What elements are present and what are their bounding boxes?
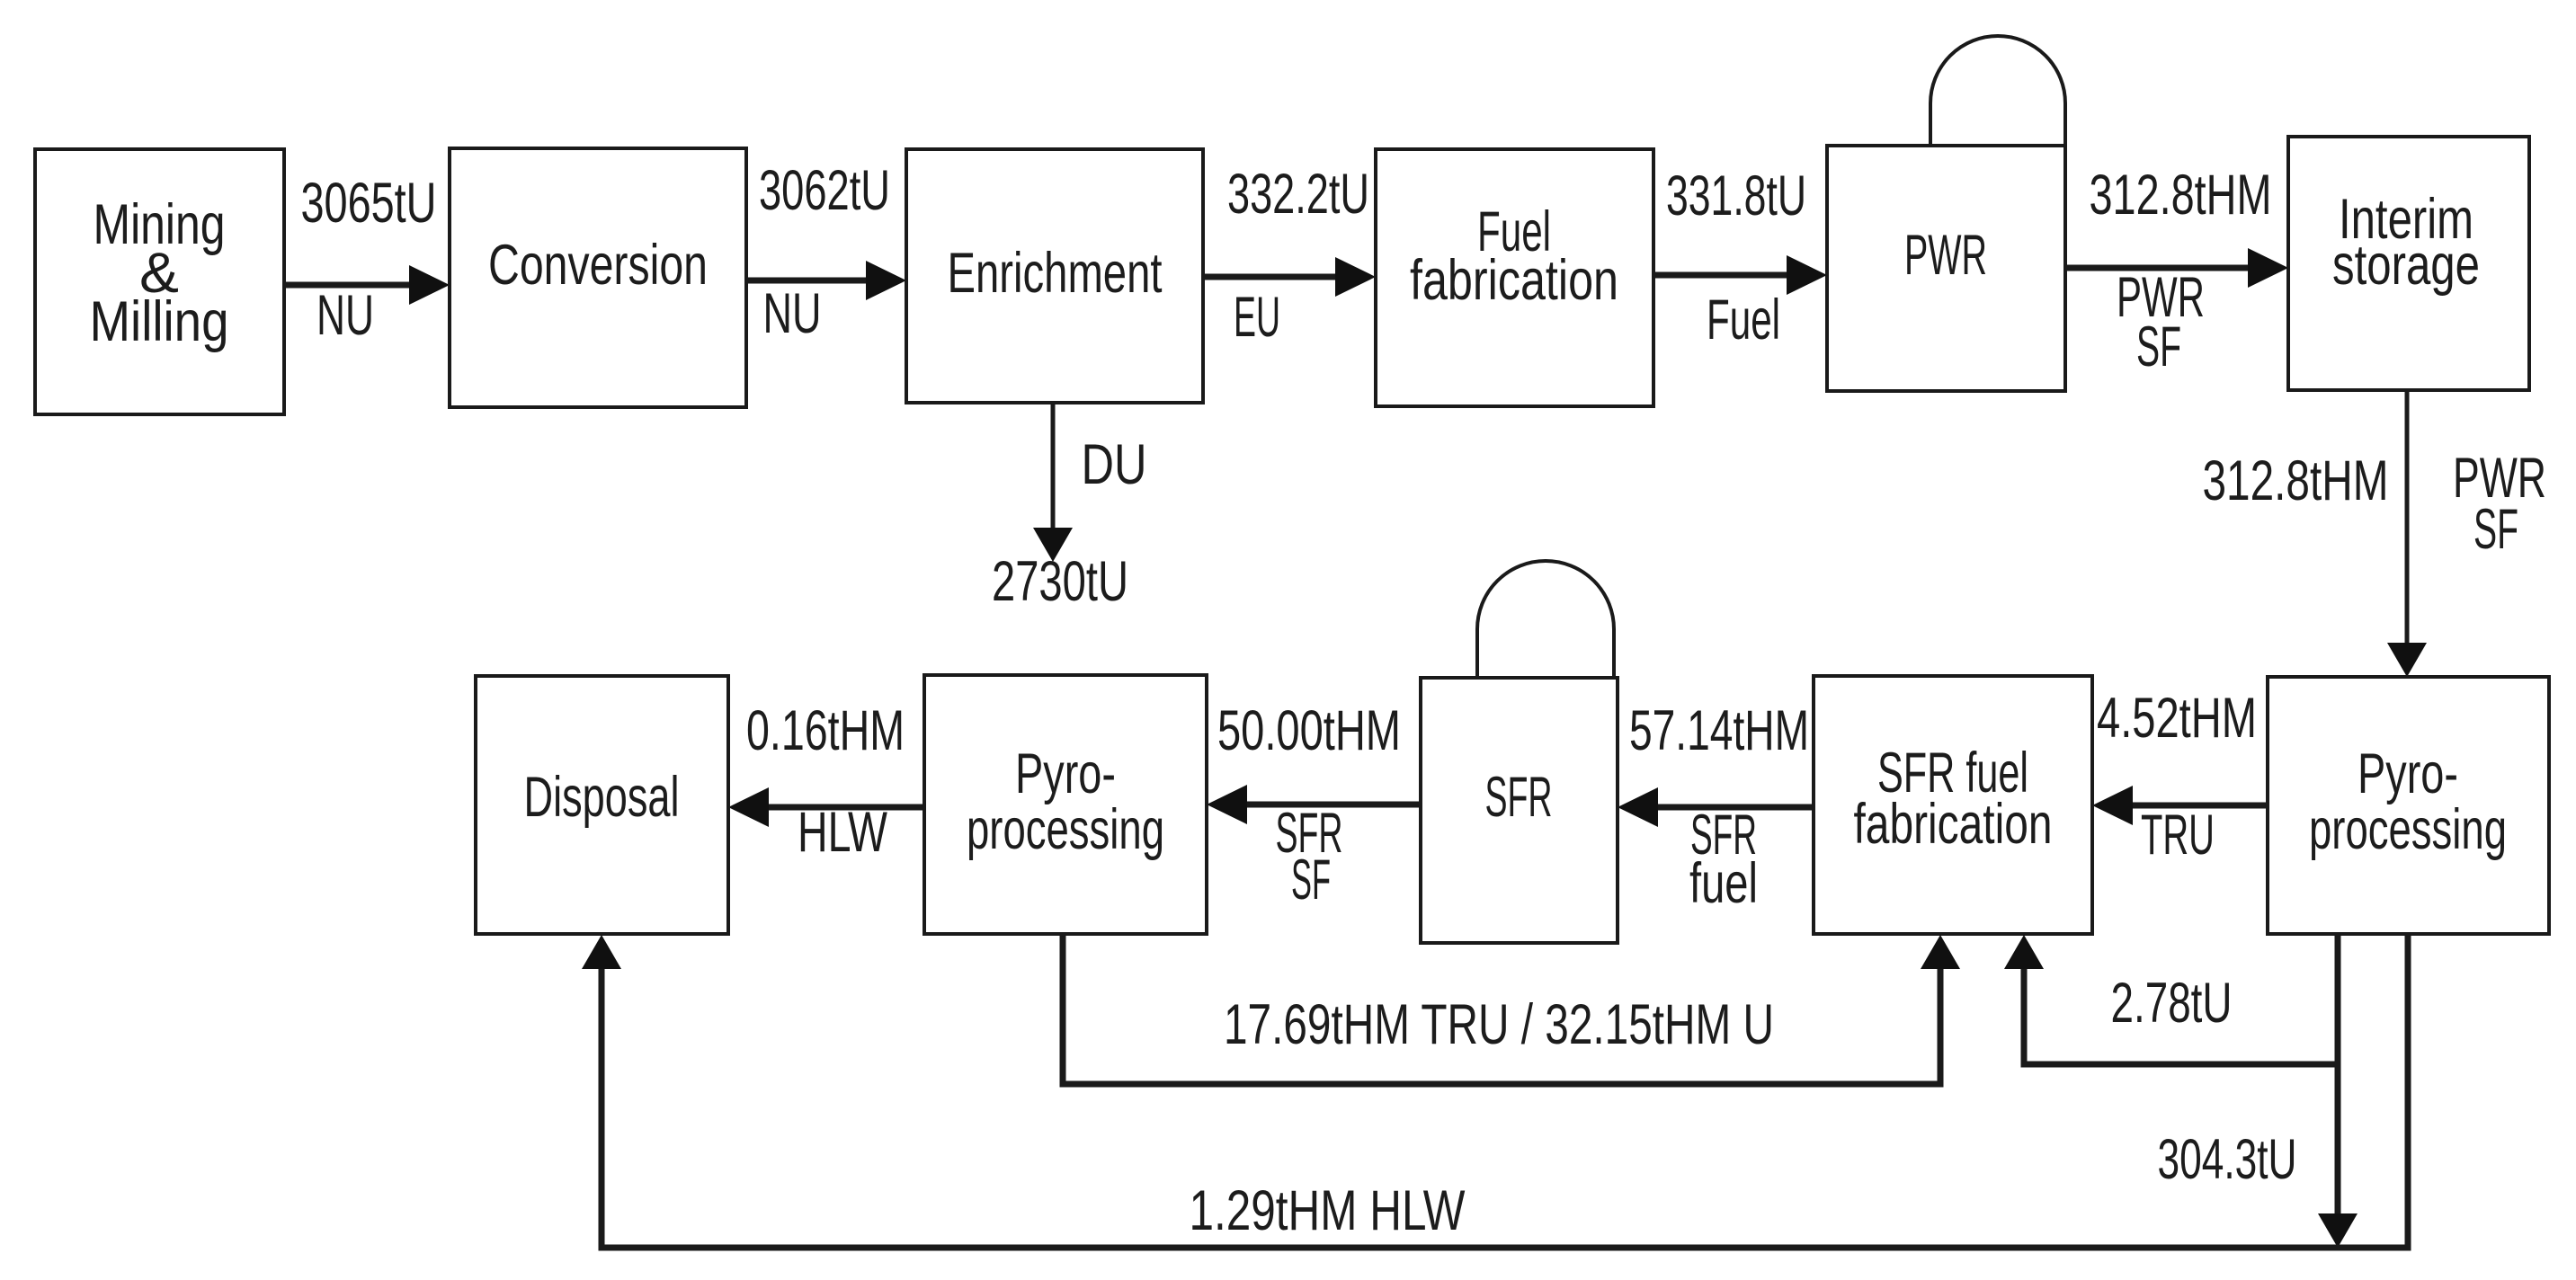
svg-text:Pyro-: Pyro- — [1015, 742, 1116, 805]
box Fuel fabrication — [1376, 149, 1653, 406]
box Conversion — [450, 148, 746, 407]
svg-text:0.16tHM: 0.16tHM — [746, 699, 905, 762]
svg-text:HLW: HLW — [798, 801, 887, 864]
svg-text:SF: SF — [2136, 316, 2181, 378]
svg-text:Milling: Milling — [90, 290, 229, 353]
svg-text:fabrication: fabrication — [1854, 793, 2053, 856]
svg-text:4.52tHM: 4.52tHM — [2097, 687, 2257, 750]
svg-text:fabrication: fabrication — [1410, 249, 1618, 312]
box PWR — [1827, 146, 2065, 391]
wire arrow Enrichment to Fuel fabrication — [1203, 257, 1376, 297]
wire recycle path Pyro right to SFR fuel fabrication (2.78tU) — [2004, 934, 2338, 1064]
box Enrichment — [906, 149, 1203, 403]
svg-text:NU: NU — [763, 282, 822, 345]
PWR reactor dome — [1930, 36, 2065, 146]
wire recycle path Pyro left to SFR fuel fabrication (TRU/U) — [1063, 934, 1960, 1084]
SFR reactor dome — [1477, 561, 1614, 678]
svg-text:Pyro-: Pyro- — [2358, 742, 2458, 805]
wire arrow SFR to Pyro-processing left — [1207, 785, 1421, 824]
wire arrow Conversion to Enrichment — [746, 261, 906, 300]
svg-text:SF: SF — [2473, 498, 2518, 561]
svg-text:2730tU: 2730tU — [992, 550, 1128, 613]
wire DU down from Enrichment — [1033, 403, 1073, 562]
box Pyro-processing right — [2268, 677, 2549, 934]
svg-text:TRU: TRU — [2141, 804, 2215, 867]
svg-text:Conversion: Conversion — [488, 234, 708, 297]
svg-text:NU: NU — [316, 284, 374, 347]
svg-text:processing: processing — [2309, 798, 2507, 861]
svg-text:332.2tU: 332.2tU — [1227, 163, 1369, 226]
svg-text:Disposal: Disposal — [524, 766, 680, 829]
svg-text:304.3tU: 304.3tU — [2158, 1128, 2297, 1191]
wire Interim storage down to Pyro-processing right — [2387, 390, 2427, 677]
svg-text:SFR: SFR — [1485, 766, 1553, 829]
svg-text:storage: storage — [2332, 234, 2480, 297]
wire 304.3tU down arrow from 2.78tU junction to bottom line — [2318, 1064, 2358, 1248]
svg-text:processing: processing — [967, 798, 1164, 861]
svg-text:Enrichment: Enrichment — [948, 242, 1163, 305]
svg-text:312.8tHM: 312.8tHM — [2090, 164, 2272, 227]
box Pyro-processing left — [924, 675, 1207, 934]
box Interim storage — [2288, 137, 2529, 390]
svg-text:1.29tHM HLW: 1.29tHM HLW — [1190, 1179, 1466, 1242]
wire arrow Pyro left to Disposal — [728, 787, 924, 827]
svg-text:2.78tU: 2.78tU — [2111, 972, 2233, 1035]
wire arrow Fuel fabrication to PWR — [1653, 255, 1827, 295]
svg-text:312.8tHM: 312.8tHM — [2203, 449, 2389, 512]
box Mining & Milling — [35, 149, 284, 414]
svg-text:3062tU: 3062tU — [759, 159, 890, 222]
box Disposal — [476, 676, 728, 934]
box SFR fuel fabrication — [1814, 676, 2092, 934]
svg-text:17.69tHM TRU / 32.15tHM U: 17.69tHM TRU / 32.15tHM U — [1224, 993, 1774, 1056]
svg-text:DU: DU — [1082, 433, 1147, 496]
svg-text:331.8tU: 331.8tU — [1666, 164, 1806, 227]
svg-text:50.00tHM: 50.00tHM — [1217, 699, 1401, 762]
svg-text:PWR: PWR — [1904, 224, 1987, 287]
svg-text:Fuel: Fuel — [1707, 289, 1780, 351]
svg-text:fuel: fuel — [1689, 852, 1758, 915]
box SFR — [1421, 678, 1618, 943]
svg-text:SF: SF — [1291, 849, 1331, 911]
wire arrow SFR fuel fabrication to SFR — [1618, 787, 1814, 827]
svg-text:EU: EU — [1234, 286, 1280, 349]
svg-text:57.14tHM: 57.14tHM — [1629, 699, 1809, 762]
svg-text:3065tU: 3065tU — [301, 172, 437, 235]
wire arrow Pyro right to SFR fuel fabrication — [2092, 786, 2268, 825]
wire bottom path Pyro right to Disposal (HLW) — [582, 934, 2408, 1248]
wire arrow PWR to Interim storage — [2065, 248, 2288, 288]
wire arrow Mining to Conversion — [284, 265, 450, 305]
